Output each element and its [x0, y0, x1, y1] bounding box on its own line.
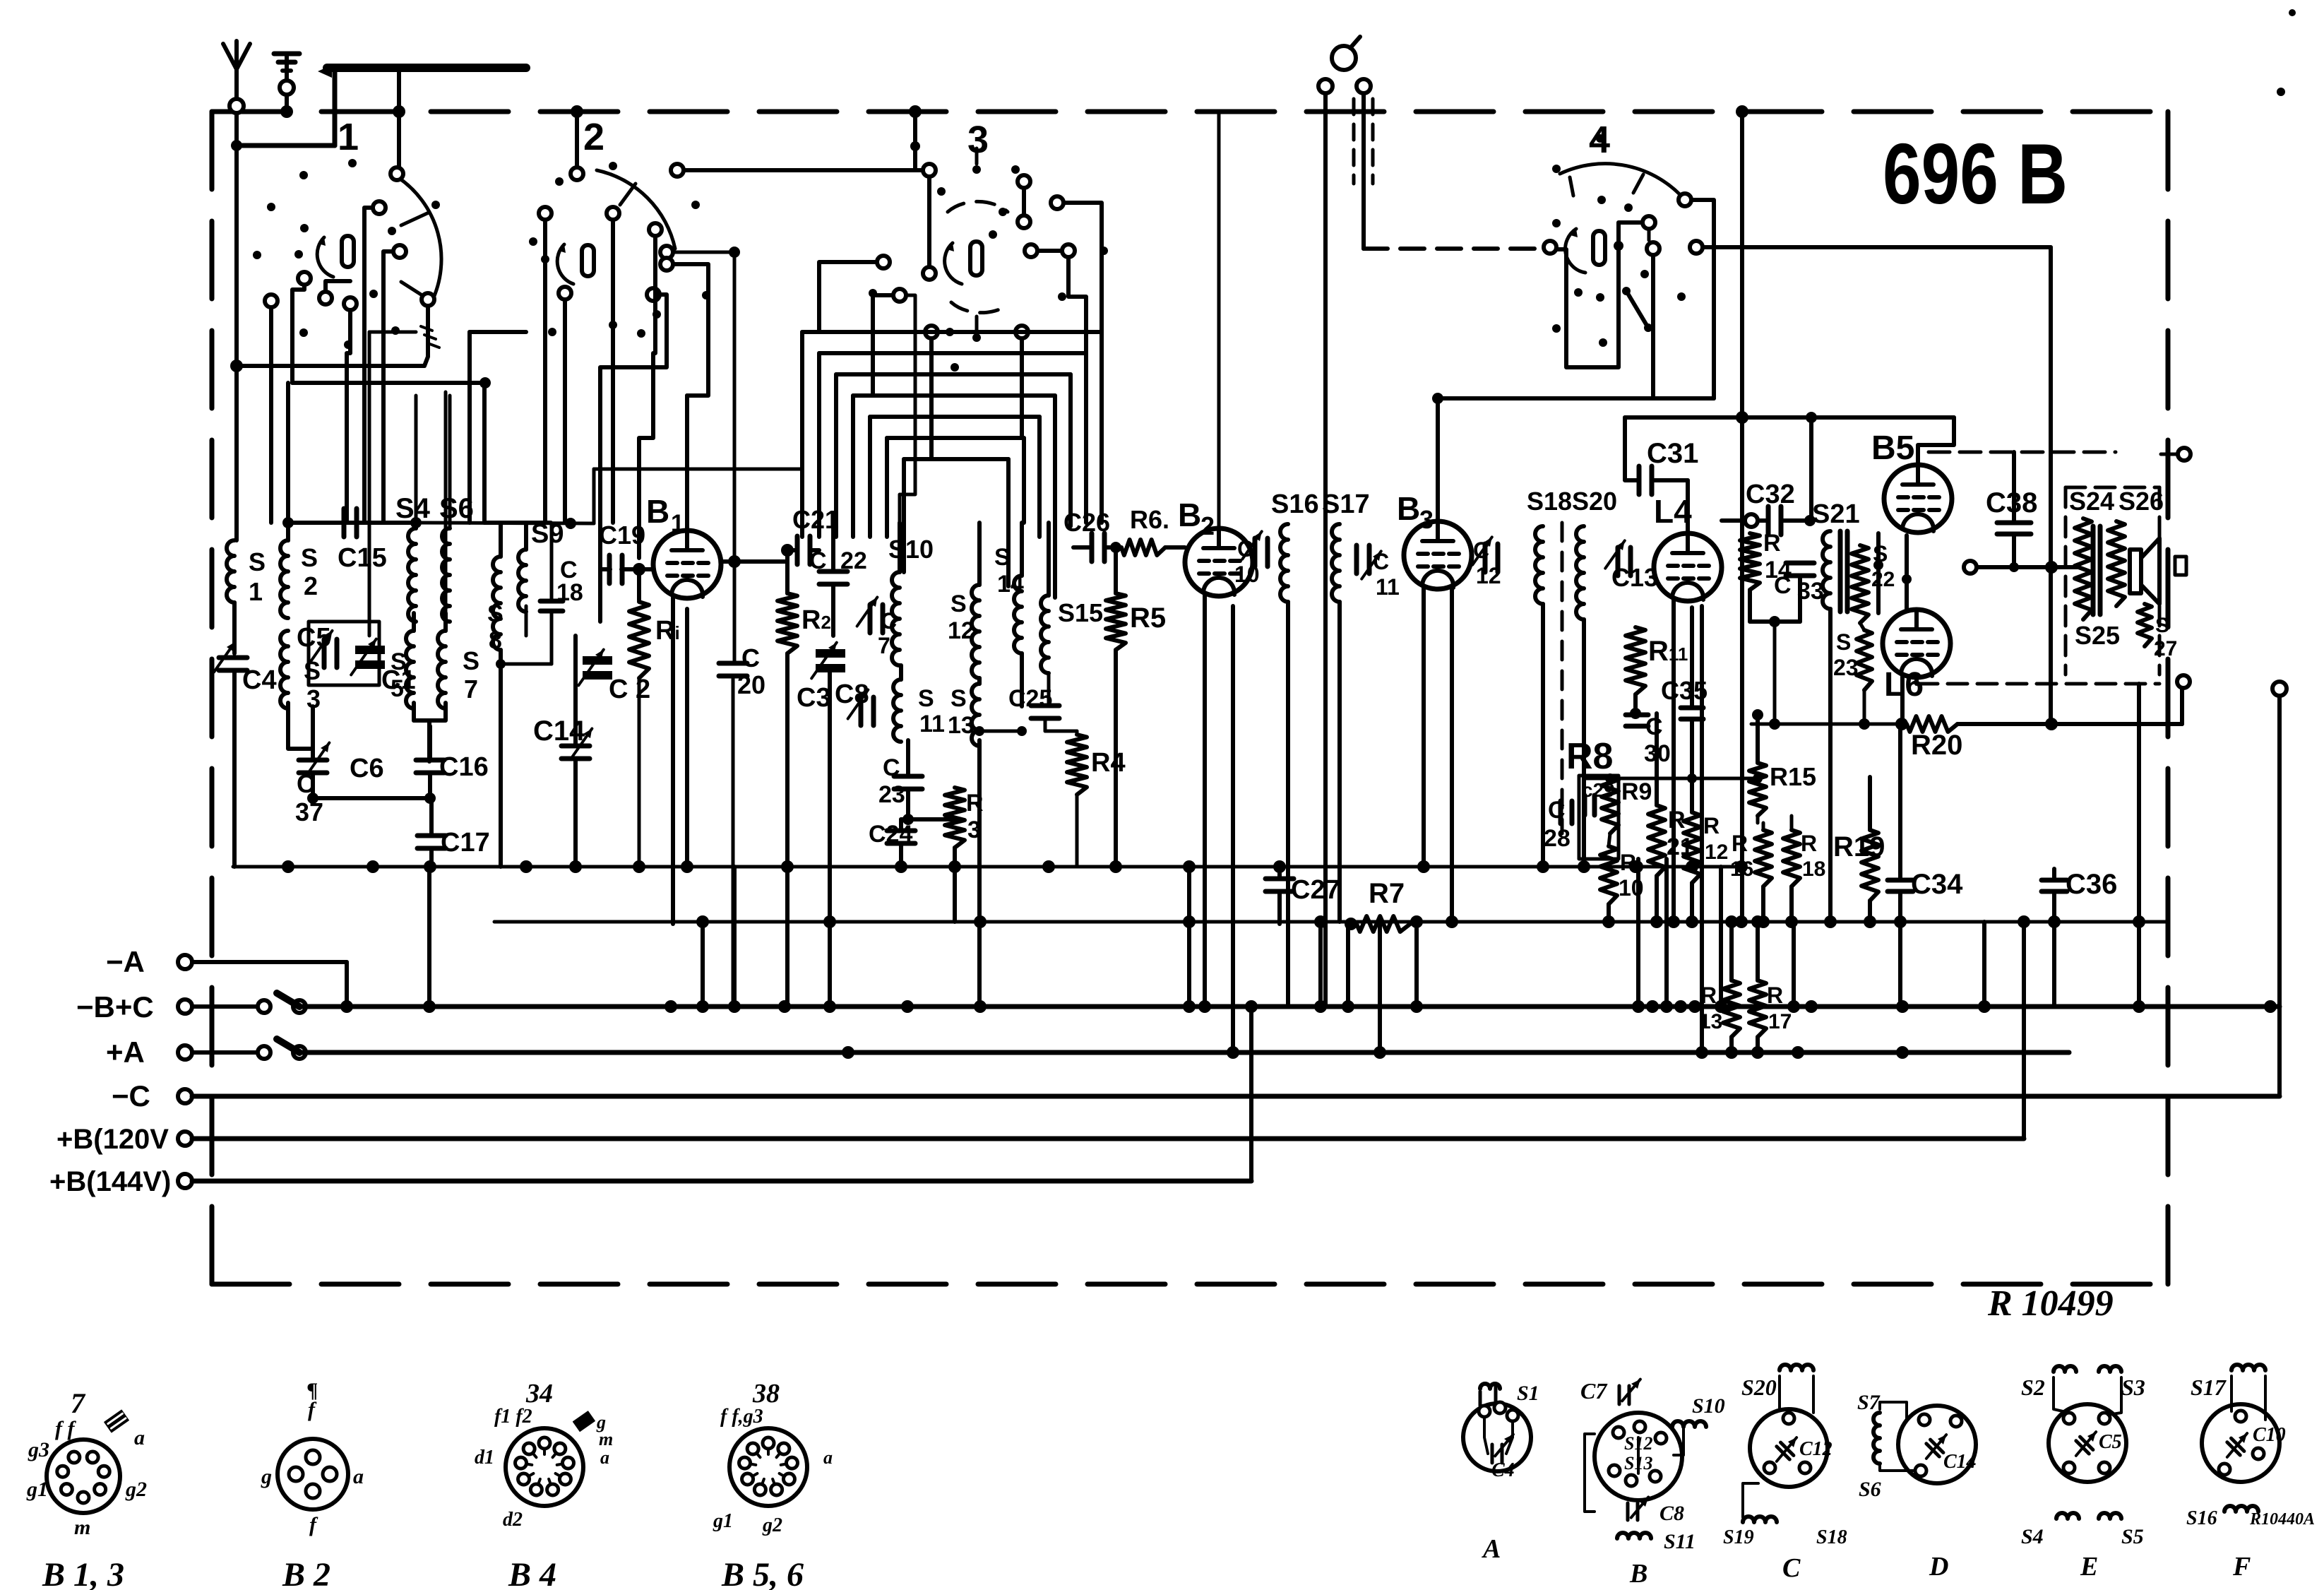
svg-text:S: S — [249, 547, 266, 576]
svg-text:696 B: 696 B — [1883, 126, 2068, 222]
svg-text:C19: C19 — [599, 521, 645, 550]
svg-text:¶: ¶ — [307, 1379, 318, 1402]
svg-text:−B+C: −B+C — [76, 990, 154, 1024]
svg-text:m: m — [74, 1516, 90, 1539]
svg-text:C12: C12 — [1799, 1438, 1833, 1460]
svg-text:R5: R5 — [1130, 603, 1166, 634]
svg-text:d2: d2 — [503, 1509, 523, 1531]
svg-text:C4: C4 — [1491, 1459, 1515, 1481]
svg-text:g: g — [261, 1465, 272, 1488]
svg-text:B: B — [1397, 490, 1420, 527]
svg-text:R: R — [1732, 831, 1748, 856]
svg-text:C4: C4 — [242, 665, 277, 695]
svg-text:−C: −C — [112, 1079, 150, 1113]
svg-text:C32: C32 — [1746, 480, 1795, 509]
svg-text:R7: R7 — [1369, 878, 1405, 909]
svg-text:S4: S4 — [2021, 1525, 2044, 1548]
svg-text:C3: C3 — [797, 683, 831, 713]
svg-text:C24: C24 — [869, 821, 912, 848]
svg-text:S: S — [301, 543, 318, 572]
svg-text:13: 13 — [1699, 1010, 1722, 1033]
svg-text:B 5, 6: B 5, 6 — [721, 1556, 804, 1590]
svg-text:a: a — [134, 1426, 145, 1449]
svg-text:R20: R20 — [1911, 730, 1962, 761]
svg-text:a: a — [823, 1447, 833, 1468]
svg-text:C15: C15 — [338, 543, 387, 573]
svg-text:B 1, 3: B 1, 3 — [42, 1556, 124, 1590]
svg-text:S17: S17 — [2191, 1375, 2227, 1400]
svg-text:g2: g2 — [125, 1478, 147, 1501]
svg-text:S26: S26 — [2119, 487, 2164, 516]
svg-text:2: 2 — [304, 571, 318, 600]
svg-text:C25: C25 — [1008, 685, 1052, 712]
svg-text:R: R — [1801, 831, 1817, 856]
svg-text:B: B — [1629, 1559, 1647, 1589]
svg-text:12: 12 — [1476, 563, 1501, 588]
svg-text:B 2: B 2 — [282, 1556, 330, 1590]
svg-text:1: 1 — [671, 510, 684, 537]
svg-text:+A: +A — [106, 1036, 145, 1069]
svg-text:S11: S11 — [1664, 1530, 1696, 1553]
svg-text:7: 7 — [71, 1387, 86, 1419]
svg-text:R19: R19 — [1833, 831, 1885, 862]
svg-text:S16: S16 — [2186, 1507, 2217, 1529]
svg-text:C35: C35 — [1661, 676, 1708, 705]
svg-text:22: 22 — [840, 547, 867, 574]
svg-text:30: 30 — [1644, 740, 1671, 767]
svg-text:11: 11 — [1376, 574, 1400, 600]
svg-text:C5: C5 — [2099, 1431, 2122, 1453]
svg-text:S2: S2 — [2021, 1375, 2045, 1400]
svg-text:1: 1 — [338, 116, 359, 158]
svg-text:3: 3 — [1419, 505, 1434, 534]
svg-text:S1: S1 — [1517, 1382, 1539, 1405]
svg-text:C10: C10 — [2253, 1424, 2286, 1446]
svg-text:S: S — [918, 685, 934, 712]
svg-text:E: E — [2080, 1552, 2098, 1582]
svg-text:L4: L4 — [1654, 493, 1692, 530]
svg-text:g2: g2 — [762, 1514, 782, 1536]
svg-text:12: 12 — [948, 617, 975, 644]
svg-text:c29: c29 — [1582, 779, 1615, 801]
svg-text:C: C — [1237, 536, 1253, 562]
svg-text:S18: S18 — [1527, 487, 1572, 516]
svg-text:18: 18 — [1802, 858, 1825, 881]
svg-text:+B(144V): +B(144V) — [49, 1166, 171, 1197]
svg-text:7: 7 — [464, 675, 478, 704]
svg-text:S25: S25 — [2075, 621, 2120, 650]
svg-text:C27: C27 — [1291, 875, 1340, 905]
svg-text:S15: S15 — [1058, 598, 1103, 627]
svg-text:R4: R4 — [1091, 748, 1126, 778]
svg-text:23: 23 — [1833, 655, 1859, 680]
svg-text:S18: S18 — [1816, 1526, 1847, 1548]
svg-text:S24: S24 — [2069, 487, 2114, 516]
svg-text:2: 2 — [1200, 511, 1215, 540]
svg-text:d1: d1 — [475, 1447, 494, 1469]
svg-text:B: B — [1178, 497, 1201, 533]
svg-text:C: C — [809, 547, 827, 574]
svg-text:g3: g3 — [28, 1438, 49, 1461]
svg-text:C8: C8 — [1659, 1502, 1684, 1525]
svg-text:R 10499: R 10499 — [1987, 1283, 2114, 1324]
svg-text:1: 1 — [249, 577, 263, 606]
svg-text:B5: B5 — [1871, 429, 1914, 467]
svg-text:a: a — [353, 1465, 364, 1488]
svg-text:g1: g1 — [26, 1478, 48, 1501]
svg-text:f f: f f — [55, 1417, 76, 1440]
svg-text:C5: C5 — [297, 623, 331, 653]
svg-text:D: D — [1929, 1552, 1948, 1582]
svg-text:−A: −A — [106, 945, 145, 978]
svg-text:f1 f2: f1 f2 — [494, 1406, 532, 1428]
svg-text:S3: S3 — [2121, 1375, 2145, 1400]
svg-text:S10: S10 — [888, 535, 934, 564]
svg-text:S21: S21 — [1812, 499, 1860, 529]
svg-text:S: S — [463, 646, 479, 675]
svg-text:C38: C38 — [1986, 487, 2037, 518]
svg-text:S19: S19 — [1723, 1526, 1754, 1548]
svg-text:22: 22 — [1871, 568, 1895, 591]
svg-text:C 2: C 2 — [609, 675, 650, 704]
svg-text:20: 20 — [737, 670, 765, 699]
svg-text:C: C — [1782, 1553, 1801, 1583]
svg-text:12: 12 — [1705, 841, 1728, 864]
svg-text:S: S — [951, 591, 967, 617]
svg-text:34: 34 — [525, 1379, 553, 1408]
svg-text:C7: C7 — [1580, 1378, 1608, 1404]
svg-text:m: m — [599, 1429, 613, 1449]
svg-text:A: A — [1482, 1534, 1501, 1564]
svg-text:S20: S20 — [1741, 1375, 1777, 1400]
svg-text:C31: C31 — [1647, 438, 1698, 469]
svg-text:+B(120V: +B(120V — [56, 1124, 169, 1155]
svg-text:13: 13 — [948, 712, 975, 739]
svg-text:S: S — [487, 600, 503, 627]
svg-text:C1: C1 — [381, 665, 416, 695]
svg-text:g1: g1 — [713, 1510, 733, 1532]
svg-text:B 4: B 4 — [508, 1556, 556, 1590]
svg-text:C34: C34 — [1911, 869, 1963, 900]
svg-text:C: C — [881, 608, 897, 634]
svg-text:C: C — [1373, 549, 1389, 574]
svg-text:R: R — [1703, 813, 1720, 838]
svg-text:28: 28 — [1544, 825, 1571, 852]
svg-text:S: S — [2155, 614, 2169, 637]
svg-text:S4: S4 — [395, 493, 431, 524]
svg-text:R: R — [1763, 530, 1781, 557]
svg-text:C13: C13 — [1611, 563, 1658, 592]
svg-text:17: 17 — [1768, 1010, 1792, 1033]
svg-text:C: C — [1473, 538, 1489, 563]
svg-text:f f,g3: f f,g3 — [720, 1406, 763, 1428]
svg-text:S: S — [994, 544, 1011, 571]
svg-text:S10: S10 — [1692, 1394, 1725, 1418]
svg-text:S6: S6 — [439, 493, 474, 524]
svg-text:C14: C14 — [1943, 1451, 1977, 1473]
svg-text:C6: C6 — [350, 754, 384, 783]
svg-text:11: 11 — [919, 711, 945, 737]
svg-text:C8: C8 — [835, 680, 869, 709]
svg-text:S5: S5 — [2121, 1525, 2144, 1548]
svg-text:R15: R15 — [1770, 762, 1816, 791]
svg-text:C: C — [1774, 572, 1792, 599]
svg-text:F: F — [2232, 1552, 2251, 1582]
svg-text:C16: C16 — [439, 752, 489, 782]
svg-text:C17: C17 — [441, 828, 490, 858]
svg-text:23: 23 — [878, 781, 905, 808]
svg-text:C36: C36 — [2066, 869, 2117, 900]
svg-text:S7: S7 — [1857, 1391, 1881, 1414]
svg-text:S16: S16 — [1271, 490, 1319, 519]
svg-text:27: 27 — [2154, 637, 2177, 660]
svg-text:S: S — [1836, 629, 1851, 655]
svg-text:a: a — [600, 1447, 609, 1468]
svg-text:R8: R8 — [1566, 736, 1613, 777]
svg-text:S: S — [951, 685, 967, 712]
svg-text:R6.: R6. — [1130, 505, 1169, 534]
svg-text:7: 7 — [878, 633, 890, 658]
svg-text:R9: R9 — [1621, 778, 1652, 805]
svg-text:S6: S6 — [1859, 1478, 1881, 1501]
svg-text:C: C — [1645, 713, 1663, 740]
svg-text:B: B — [646, 493, 669, 530]
svg-text:C: C — [741, 643, 760, 672]
svg-text:10: 10 — [1234, 562, 1260, 587]
svg-text:S17: S17 — [1322, 490, 1370, 519]
svg-text:C26: C26 — [1063, 508, 1110, 537]
svg-text:38: 38 — [752, 1379, 780, 1408]
svg-text:C: C — [883, 754, 900, 781]
svg-text:C14: C14 — [533, 716, 585, 747]
svg-text:2: 2 — [583, 116, 604, 158]
svg-text:S20: S20 — [1572, 487, 1617, 516]
